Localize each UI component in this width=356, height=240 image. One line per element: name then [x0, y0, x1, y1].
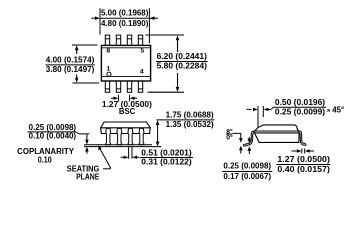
dimension 1.27/0.40 foot length: left tick — [301, 149, 303, 154]
side view lead 4 — [139, 128, 144, 144]
left arrow tail — [121, 156, 124, 158]
up arrow stem below foot — [240, 149, 242, 153]
left arrow tail — [292, 150, 298, 152]
up arrowhead — [75, 45, 79, 50]
bottom tick line (pin tips) — [148, 91, 185, 93]
top tick line (pin tips) — [146, 34, 185, 36]
svg-text:0.50 (0.0196): 0.50 (0.0196) — [275, 98, 326, 107]
down arrowhead at foot line — [85, 140, 89, 145]
svg-text:0.40 (0.0157): 0.40 (0.0157) — [277, 165, 330, 174]
pin 1 indicator circle — [107, 72, 111, 76]
svg-text:0.31 (0.0122): 0.31 (0.0122) — [141, 157, 192, 166]
left arrowhead — [124, 156, 129, 159]
svg-text:0.17 (0.0067): 0.17 (0.0067) — [223, 172, 271, 181]
arrow stem — [157, 123, 159, 144]
left arrow tail — [246, 108, 251, 110]
right arrowhead — [264, 108, 269, 111]
right arrowhead — [130, 97, 135, 100]
dimension 0.51/0.31 lead width: left tick — [128, 147, 130, 159]
side view lead 2 — [117, 128, 122, 144]
up arrowhead — [156, 120, 160, 125]
fraction bar — [46, 64, 95, 66]
bottom tick line (body bottom) — [73, 82, 100, 84]
svg-text:6.20 (0.2441): 6.20 (0.2441) — [157, 52, 208, 61]
seating plane line — [84, 146, 161, 148]
foot line — [84, 144, 152, 146]
dimension 0.50/0.25 x45 chamfer — [246, 106, 326, 127]
right arrow tail — [137, 156, 140, 158]
left arrow tail — [111, 97, 114, 99]
up arrowhead — [176, 35, 180, 40]
svg-text:4.80 (0.1890): 4.80 (0.1890) — [101, 19, 149, 28]
svg-text:1.27 (0.0500): 1.27 (0.0500) — [277, 155, 330, 164]
down arrowhead — [176, 87, 180, 92]
chamfer tick left — [257, 106, 259, 127]
fraction bar — [222, 171, 272, 173]
end view left lead tip — [242, 145, 245, 147]
leader dash — [103, 168, 111, 170]
lead angle leader elbow — [233, 133, 241, 138]
end view left lead bottom surface — [244, 133, 254, 146]
top tick line (body top) — [72, 44, 98, 46]
dimension 0.25/0.17 lead thickness: down arrow stem — [248, 137, 250, 140]
right arrow tail — [154, 17, 158, 19]
fraction bar — [277, 164, 331, 166]
extension line right (body width) — [148, 8, 150, 43]
left arrowhead — [114, 97, 119, 100]
down arrowhead — [75, 78, 79, 83]
svg-text:BSC: BSC — [119, 107, 136, 116]
upper arrow stem — [177, 40, 179, 53]
down arrowhead at seating plane — [156, 142, 160, 147]
upper arrow stem — [76, 49, 78, 54]
svg-text:1.35 (0.0532): 1.35 (0.0532) — [166, 120, 214, 129]
dimension line / fraction bar 5.00 over 4.80 — [100, 17, 149, 19]
body inner line bottom — [102, 75, 150, 77]
leader elbow — [76, 132, 89, 134]
dimension 6.20/5.80 overall (right) — [146, 35, 185, 92]
svg-text:1.75 (0.0688): 1.75 (0.0688) — [166, 111, 214, 120]
lower arrow stem — [177, 73, 179, 88]
end view left lead top surface — [244, 131, 254, 145]
package body top view — [101, 45, 150, 81]
parting line double — [254, 130, 299, 132]
side view lead 1 — [106, 128, 111, 144]
svg-text:0.10 (0.0040): 0.10 (0.0040) — [29, 131, 77, 140]
right tick — [131, 147, 133, 159]
pin 6 lead — [127, 35, 131, 45]
left arrow tail — [91, 17, 95, 19]
svg-text:0°: 0° — [226, 133, 233, 141]
svg-text:5: 5 — [140, 48, 144, 55]
extension line left (body width) — [99, 8, 101, 34]
up arrowhead at foot bottom — [239, 146, 243, 151]
right arrow tail — [309, 150, 314, 152]
dimension 1.27 BSC pin pitch (bottom of top view) — [111, 95, 137, 102]
fraction bar — [140, 157, 193, 159]
chamfer tick right — [262, 106, 264, 117]
right tick — [304, 149, 306, 154]
pin 7 lead — [116, 35, 120, 45]
svg-text:1: 1 — [106, 66, 110, 73]
up arrowhead at seating plane — [85, 147, 89, 152]
svg-text:×: × — [327, 107, 331, 114]
end view body — [254, 125, 299, 142]
up arrow stem — [86, 150, 88, 154]
right arrow tail — [134, 97, 137, 99]
down arrow stem — [86, 134, 88, 141]
dimension 4.00/3.80 body height (left) — [72, 45, 99, 83]
left arrowhead — [95, 16, 100, 20]
fraction bar — [156, 61, 208, 63]
svg-text:0.25 (0.0098): 0.25 (0.0098) — [223, 162, 271, 171]
leader arrowhead — [98, 145, 101, 150]
right arrowhead — [150, 16, 155, 20]
pitch tick at pin 3 centerline — [129, 95, 131, 102]
right arrowhead — [305, 149, 310, 152]
dimension line / fraction bar 0.50 over 0.25 — [271, 107, 326, 109]
svg-text:8: 8 — [106, 48, 110, 55]
pin 4 lead — [138, 81, 142, 92]
down arrowhead at foot top — [248, 139, 252, 144]
pin 3 lead — [127, 81, 131, 92]
end view right lead tip — [305, 144, 307, 146]
svg-text:0.10: 0.10 — [38, 155, 53, 164]
end view right lead bottom surface — [299, 133, 306, 146]
svg-text:0.25 (0.0099): 0.25 (0.0099) — [275, 107, 326, 116]
svg-text:PLANE: PLANE — [76, 173, 99, 182]
svg-text:4: 4 — [140, 68, 144, 75]
dimension 5.00/4.80 body width (top) — [91, 8, 158, 43]
pin 2 lead — [116, 81, 120, 92]
svg-text:3.80 (0.1497): 3.80 (0.1497) — [46, 65, 95, 74]
svg-text:45°: 45° — [332, 106, 344, 115]
right arrowhead — [132, 156, 137, 159]
pin 5 lead — [138, 35, 142, 45]
fraction bar 8 over 0 — [226, 133, 233, 135]
end view right lead top surface — [299, 131, 306, 144]
up arrow stem — [248, 150, 250, 154]
side view body — [101, 122, 151, 134]
leader diagonal — [99, 148, 111, 169]
left arrowhead — [253, 108, 258, 111]
side view lead 3 — [128, 128, 133, 144]
dimension 1.75/1.35 height: dimension line / fraction bar — [156, 119, 214, 121]
pitch tick at pin 2 centerline — [118, 95, 120, 102]
svg-text:5.80 (0.2284): 5.80 (0.2284) — [157, 61, 208, 70]
left arrowhead — [297, 149, 302, 152]
svg-text:4.00 (0.1574): 4.00 (0.1574) — [46, 55, 95, 64]
lower arrow stem — [76, 75, 78, 79]
up arrowhead at foot bottom — [248, 146, 252, 151]
pin 8 lead (top row) — [105, 35, 142, 92]
svg-text:0.51 (0.0201): 0.51 (0.0201) — [141, 148, 192, 157]
fraction bar — [28, 131, 77, 133]
parting line — [101, 127, 151, 129]
right arrow tail — [268, 108, 271, 110]
leader down arrowhead — [239, 138, 243, 143]
pin 1 lead (bottom row) — [105, 81, 109, 92]
body inner line top — [102, 47, 150, 49]
svg-text:5.00 (0.1968): 5.00 (0.1968) — [101, 9, 149, 18]
